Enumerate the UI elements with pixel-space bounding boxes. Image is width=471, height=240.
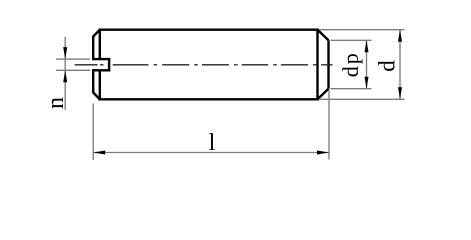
dimension d: extension lines	[320, 30, 405, 100]
wire left top corner chamfer	[93, 30, 100, 37]
dimension dp: extension lines	[331, 40, 372, 88]
wire right end face	[327, 40, 329, 88]
dimension dp: bottom arrow	[365, 77, 369, 89]
wire right chamfer circle line	[316, 29, 318, 101]
wire top edge	[99, 29, 319, 31]
dimension dp: dimension line	[366, 40, 368, 88]
wire left end face (upper)	[92, 36, 94, 60]
svg-text:dp: dp	[338, 51, 363, 77]
svg-text:n: n	[43, 97, 69, 109]
svg-text:d: d	[375, 60, 400, 72]
dimension n: dimension line	[64, 37, 66, 110]
wire left chamfer circle line (upper)	[99, 29, 101, 61]
dimension l: right arrow	[317, 151, 329, 155]
wire left end face (lower)	[92, 69, 94, 93]
dimension l: dimension line	[93, 152, 329, 154]
wire bottom edge	[99, 98, 319, 100]
dimension d: bottom arrow	[398, 87, 402, 99]
screw body outline	[93, 29, 328, 101]
dimension l: extension lines	[93, 91, 329, 161]
dimension d: dimension line	[399, 30, 401, 100]
wire left chamfer circle line (lower)	[99, 69, 101, 100]
wire left bottom corner chamfer	[93, 93, 100, 100]
dimension n: top arrow	[63, 47, 67, 59]
wire right bottom chamfer diagonal	[318, 89, 329, 100]
svg-text:l: l	[209, 130, 216, 156]
dimension l: left arrow	[93, 151, 105, 155]
dimension dp: top arrow	[365, 40, 369, 52]
wire slot top edge	[92, 58, 110, 60]
wire slot right (bottom of slot) edge	[108, 58, 110, 71]
dimension n: bottom arrow	[63, 70, 67, 82]
wire slot bottom edge	[92, 69, 110, 71]
dimension d: top arrow	[398, 30, 402, 42]
wire right top chamfer diagonal	[318, 30, 329, 41]
centerline (axis, dash-dot)	[75, 64, 333, 66]
slot (screwdriver slot at left end)	[92, 58, 110, 71]
dimension n: extension lines	[56, 37, 90, 110]
